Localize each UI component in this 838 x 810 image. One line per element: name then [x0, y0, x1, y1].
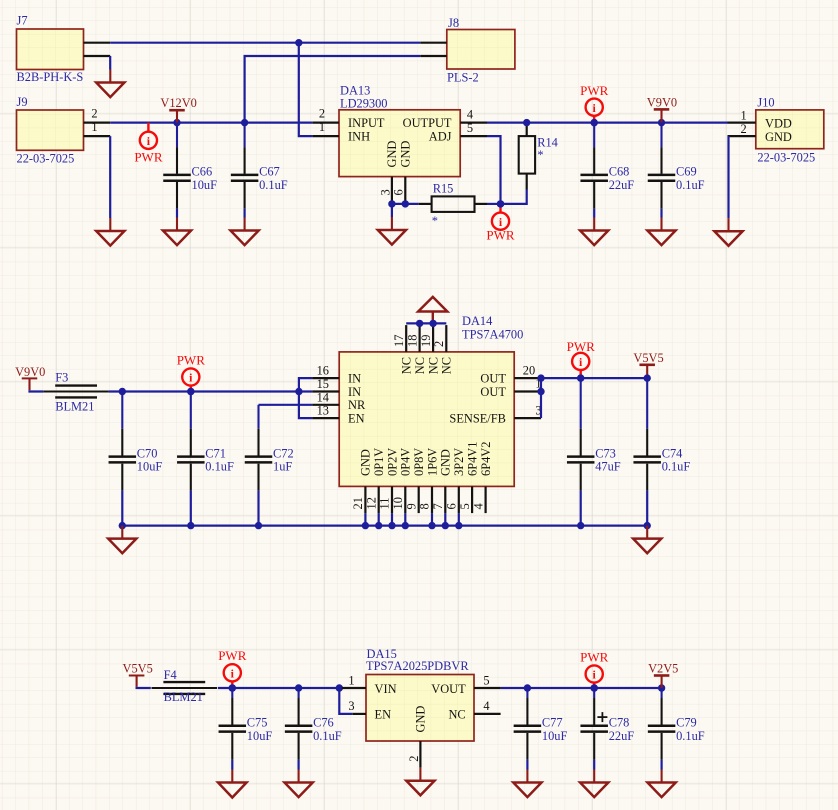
power spec PWR 3	[593, 116, 595, 123]
capacitor C72 1uF	[257, 405, 259, 429]
svg-text:3: 3	[348, 699, 354, 713]
svg-text:GND: GND	[439, 449, 453, 476]
junction PWR C75	[229, 684, 236, 691]
wire R15 to node	[487, 203, 501, 205]
svg-text:1: 1	[740, 108, 746, 122]
wire R14 bottom	[526, 174, 528, 190]
junction C68	[591, 119, 598, 126]
svg-text:5: 5	[483, 673, 489, 687]
junction C77	[524, 684, 531, 691]
power spec PWR 1	[147, 123, 149, 132]
svg-text:10uF: 10uF	[542, 729, 568, 743]
power port V9V0 top	[660, 109, 662, 122]
svg-text:0P2V: 0P2V	[385, 448, 399, 476]
svg-text:0.1uF: 0.1uF	[676, 178, 705, 192]
svg-text:*: *	[537, 148, 543, 162]
svg-text:0P1V: 0P1V	[372, 448, 386, 476]
svg-text:VIN: VIN	[375, 682, 397, 696]
pin 1 stub OUT	[514, 390, 541, 392]
wire pin 6 to rail	[458, 513, 460, 526]
ground for C75	[231, 770, 233, 783]
capacitor C69 0.1uF	[660, 123, 662, 148]
svg-text:V5V5: V5V5	[633, 351, 663, 365]
svg-text:PWR: PWR	[486, 228, 515, 243]
wire J8.2 down to rail	[245, 56, 421, 123]
ferrite bead F4 BLM21	[152, 687, 218, 689]
svg-text:C75: C75	[247, 716, 268, 730]
svg-text:C69: C69	[676, 165, 697, 179]
wire to DA13 INH	[299, 43, 313, 136]
svg-text:0.1uF: 0.1uF	[259, 178, 288, 192]
junction node top	[295, 39, 302, 46]
capacitor C77 10uF	[526, 688, 528, 698]
regulator DA13 LD29300	[339, 110, 460, 177]
capacitor C67 0.1uF	[244, 123, 246, 148]
svg-text:0.1uF: 0.1uF	[313, 729, 342, 743]
power port V5V5 middle	[646, 365, 648, 378]
svg-text:47uF: 47uF	[595, 460, 621, 474]
svg-text:NC: NC	[440, 357, 454, 374]
svg-text:V5V5: V5V5	[123, 662, 153, 676]
svg-text:0.1uF: 0.1uF	[676, 729, 705, 743]
svg-text:BLM21: BLM21	[55, 400, 94, 414]
svg-text:GND: GND	[765, 130, 792, 144]
svg-text:C70: C70	[137, 446, 158, 460]
svg-text:1: 1	[319, 120, 325, 134]
power spec PWR 6	[231, 681, 233, 688]
junction DA14 in node	[295, 388, 302, 395]
pin 2 stub GND	[419, 741, 421, 768]
pin 12 stub bottom 0P1V	[378, 486, 380, 513]
svg-text:DA13: DA13	[340, 83, 370, 97]
capacitor C70 10uF	[121, 392, 123, 429]
svg-text:BLM21: BLM21	[164, 690, 203, 704]
junction C69	[658, 119, 665, 126]
svg-text:20: 20	[523, 363, 535, 377]
svg-text:22-03-7025: 22-03-7025	[757, 150, 815, 164]
regulator DA14 TPS7A4700	[339, 352, 514, 487]
svg-text:6P4V1: 6P4V1	[465, 442, 479, 476]
svg-text:2: 2	[740, 122, 746, 136]
svg-text:5: 5	[467, 121, 473, 135]
wire ground rail middle	[122, 524, 647, 526]
ground for DA13	[391, 217, 393, 230]
pin 9 stub bottom 0P8V	[418, 486, 420, 513]
wire DA13 gnd down	[391, 204, 393, 217]
svg-text:VOUT: VOUT	[431, 682, 466, 696]
svg-text:12: 12	[364, 497, 378, 509]
pin 8 stub bottom 1P6V	[431, 486, 433, 513]
connector J7	[17, 29, 84, 70]
capacitor C79 0.1uF	[661, 688, 663, 698]
wire V9 rail	[487, 121, 728, 123]
svg-text:15: 15	[317, 377, 329, 391]
svg-text:PWR: PWR	[580, 650, 609, 665]
svg-text:EN: EN	[348, 411, 365, 425]
svg-text:9: 9	[404, 503, 418, 509]
svg-text:10uF: 10uF	[247, 729, 273, 743]
svg-text:C68: C68	[609, 165, 630, 179]
junction C67	[241, 119, 248, 126]
svg-text:11: 11	[378, 498, 392, 510]
wire NR to C72	[259, 404, 313, 406]
svg-text:GND: GND	[359, 449, 373, 476]
power port V12V0	[176, 110, 178, 122]
pin 4 stub OUTPUT	[460, 121, 487, 123]
wire out tie	[540, 378, 542, 418]
svg-text:1: 1	[348, 673, 354, 687]
pin 3 stub SENSE/FB	[514, 417, 541, 419]
ground for C68	[593, 218, 595, 231]
junction C70	[119, 388, 126, 395]
junction ADJ node	[497, 200, 504, 207]
svg-text:17: 17	[392, 335, 406, 347]
svg-text:C78: C78	[609, 716, 630, 730]
svg-text:ADJ: ADJ	[429, 129, 452, 143]
svg-text:J9: J9	[17, 95, 28, 109]
svg-text:F4: F4	[164, 668, 177, 682]
pin 20 stub OUT	[514, 377, 541, 379]
junction R14	[523, 119, 530, 126]
ground for middle rail left	[121, 526, 123, 539]
wire pin 7 to rail	[444, 513, 446, 526]
pin 2 stub top	[445, 325, 447, 352]
ground for C67	[244, 218, 246, 231]
capacitor C76 0.1uF	[298, 688, 300, 698]
svg-text:4: 4	[471, 503, 485, 509]
svg-text:22uF: 22uF	[609, 729, 635, 743]
pin 1 stub VIN	[342, 687, 366, 689]
svg-text:PLS-2: PLS-2	[447, 71, 479, 85]
svg-text:OUT: OUT	[480, 371, 506, 385]
pin 15 stub IN	[312, 390, 339, 392]
connector J10	[756, 110, 824, 149]
pin 4 stub bottom 6P4V2	[485, 486, 487, 513]
wire pin 12 to rail	[378, 513, 380, 526]
regulator DA15 TPS7A2025PDBVR	[366, 675, 474, 742]
svg-text:C72: C72	[273, 446, 294, 460]
svg-text:10uF: 10uF	[137, 460, 163, 474]
svg-text:NC: NC	[426, 357, 440, 374]
svg-text:TPS7A4700: TPS7A4700	[462, 327, 523, 341]
svg-text:EN: EN	[375, 708, 392, 722]
svg-text:J7: J7	[17, 14, 28, 28]
wire VIN to EN	[339, 688, 352, 714]
resistor R14	[526, 123, 528, 137]
ground for C66	[176, 218, 178, 231]
svg-text:GND: GND	[399, 141, 413, 168]
svg-text:18: 18	[405, 335, 419, 347]
svg-text:1P6V: 1P6V	[425, 448, 439, 476]
junction pin 19	[429, 320, 436, 327]
wire IN EN tie	[299, 378, 313, 418]
power spec PWR 5	[580, 370, 582, 378]
connector J8	[447, 30, 515, 70]
svg-text:0P8V: 0P8V	[412, 448, 426, 476]
pin 5 stub bottom 6P4V1	[471, 486, 473, 513]
svg-text:6P4V2: 6P4V2	[479, 442, 493, 476]
junction C76	[295, 684, 302, 691]
svg-text:R15: R15	[433, 182, 454, 196]
svg-text:5: 5	[458, 503, 472, 509]
svg-text:21: 21	[351, 497, 365, 509]
ground for C69	[660, 218, 662, 231]
svg-text:10: 10	[391, 497, 405, 509]
svg-text:C76: C76	[313, 716, 334, 730]
ground for C76	[298, 770, 300, 783]
wire J9.1 to ground	[109, 136, 111, 218]
svg-text:GND: GND	[385, 141, 399, 168]
wire 5V5 feed	[218, 687, 342, 689]
svg-text:C73: C73	[595, 446, 616, 460]
svg-text:DA14: DA14	[462, 314, 492, 328]
capacitor C73 47uF	[580, 378, 582, 429]
pin 13 stub EN	[312, 417, 339, 419]
svg-text:NC: NC	[448, 708, 465, 722]
pin 6 stub bottom 3P2V	[458, 486, 460, 513]
wire NC tie top	[406, 322, 446, 324]
svg-text:C79: C79	[676, 716, 697, 730]
svg-text:SENSE/FB: SENSE/FB	[449, 411, 505, 425]
wire 9V rail middle	[109, 390, 313, 392]
svg-text:V2V5: V2V5	[648, 662, 678, 676]
svg-text:C71: C71	[205, 446, 226, 460]
svg-text:1: 1	[91, 120, 97, 134]
power spec PWR 4	[190, 386, 192, 392]
svg-text:2: 2	[407, 755, 421, 761]
ground for J10	[727, 218, 729, 231]
svg-text:B2B-PH-K-S: B2B-PH-K-S	[17, 70, 84, 84]
svg-text:0.1uF: 0.1uF	[205, 460, 234, 474]
svg-text:13: 13	[317, 404, 329, 418]
capacitor C68 22uF	[593, 123, 595, 148]
junction C66	[173, 119, 180, 126]
svg-text:2: 2	[432, 341, 446, 347]
svg-text:8: 8	[418, 503, 432, 509]
svg-text:C74: C74	[662, 446, 683, 460]
svg-text:2: 2	[91, 107, 97, 121]
wire J10.2 to ground	[727, 136, 729, 218]
svg-text:19: 19	[419, 335, 433, 347]
svg-text:1uF: 1uF	[273, 460, 292, 474]
svg-text:TPS7A2025PDBVR: TPS7A2025PDBVR	[366, 659, 469, 673]
junction C78	[591, 684, 598, 691]
junction C79	[658, 684, 665, 691]
svg-text:*: *	[432, 214, 438, 228]
svg-text:0.1uF: 0.1uF	[662, 460, 691, 474]
svg-text:J8: J8	[448, 16, 459, 30]
svg-text:OUTPUT: OUTPUT	[403, 116, 452, 130]
pin 18 stub top	[419, 325, 421, 352]
power spec PWR 2	[499, 204, 501, 213]
svg-text:PWR: PWR	[177, 353, 206, 368]
svg-text:NR: NR	[348, 398, 366, 412]
pin 19 stub top	[432, 325, 434, 352]
svg-text:4: 4	[483, 699, 489, 713]
svg-text:NC: NC	[413, 357, 427, 374]
wire 5V5 rail	[541, 377, 647, 379]
ferrite bead F3 BLM21	[43, 390, 109, 392]
svg-text:LD29300: LD29300	[340, 96, 388, 110]
pin 1 stub	[313, 135, 339, 137]
svg-text:22-03-7025: 22-03-7025	[17, 152, 75, 166]
svg-text:V9V0: V9V0	[15, 365, 45, 379]
wire J7.1 to ground	[109, 56, 111, 70]
capacitor C78 22uF polarized	[593, 688, 595, 698]
pin 3 stub GND	[391, 177, 393, 204]
svg-text:3: 3	[378, 189, 392, 195]
svg-text:PWR: PWR	[218, 648, 247, 663]
wire ADJ to node	[487, 136, 501, 204]
connector J9	[17, 110, 84, 150]
pin 5 stub VOUT	[474, 687, 501, 689]
svg-text:C66: C66	[192, 165, 213, 179]
svg-text:0P4V: 0P4V	[399, 448, 413, 476]
pin 14 stub NR	[312, 404, 339, 406]
ground for C79	[661, 770, 663, 783]
svg-text:C67: C67	[259, 165, 280, 179]
junction C71	[187, 388, 194, 395]
pin 10 stub bottom 0P4V	[404, 486, 406, 513]
pin 7 stub bottom GND	[444, 486, 446, 513]
pin 21 stub bottom GND	[364, 486, 366, 513]
svg-text:2: 2	[319, 106, 325, 120]
capacitor C66 10uF	[176, 123, 178, 148]
svg-text:6: 6	[445, 503, 459, 509]
ground for DA15	[419, 768, 421, 781]
svg-text:PWR: PWR	[134, 150, 163, 165]
ground for J9	[109, 218, 111, 231]
junction VIN node	[336, 684, 343, 691]
svg-text:J10: J10	[757, 96, 774, 110]
svg-text:IN: IN	[348, 385, 361, 399]
wire V12 rail	[110, 121, 312, 123]
wire pin 10 to rail	[404, 513, 406, 526]
svg-text:OUT: OUT	[480, 385, 506, 399]
capacitor C71 0.1uF	[190, 392, 192, 429]
svg-text:INH: INH	[348, 129, 370, 143]
ground for C78	[593, 770, 595, 783]
svg-text:PWR: PWR	[567, 339, 596, 354]
svg-text:6: 6	[392, 189, 406, 195]
svg-text:3P2V: 3P2V	[452, 448, 466, 476]
junction C74	[644, 374, 651, 381]
power spec PWR 7	[593, 683, 595, 688]
svg-text:16: 16	[317, 364, 329, 378]
svg-text:V12V0: V12V0	[160, 96, 196, 110]
svg-text:22uF: 22uF	[609, 178, 635, 192]
svg-text:4: 4	[467, 108, 473, 122]
junction pin 18	[416, 320, 423, 327]
svg-text:F3: F3	[55, 371, 68, 385]
svg-text:7: 7	[431, 503, 445, 509]
svg-text:VDD: VDD	[765, 116, 792, 130]
svg-text:GND: GND	[414, 706, 428, 733]
ground for C77	[526, 770, 528, 783]
svg-text:PWR: PWR	[580, 83, 609, 98]
svg-text:C77: C77	[542, 716, 563, 730]
wire DA13 gnd pins	[392, 203, 419, 205]
capacitor C74 0.1uF	[646, 378, 648, 429]
resistor R15	[432, 196, 475, 212]
pin 6 stub GND	[404, 177, 406, 204]
wire pin 21 to rail	[364, 513, 366, 526]
svg-text:V9V0: V9V0	[647, 96, 677, 110]
ground for J7	[109, 70, 111, 83]
pin 3 stub EN	[353, 713, 366, 715]
pin 16 stub IN	[312, 377, 339, 379]
power arrow top	[432, 312, 434, 324]
wire 2V5 rail	[501, 687, 662, 689]
pin 4 stub NC	[474, 713, 501, 715]
pin 17 stub top	[405, 325, 407, 352]
junction C73	[577, 374, 584, 381]
svg-text:IN: IN	[348, 371, 361, 385]
pin 11 stub bottom 0P2V	[391, 486, 393, 513]
ground for middle rail right	[646, 526, 648, 539]
power port V2V5	[661, 676, 663, 689]
svg-text:14: 14	[317, 390, 329, 404]
capacitor C75 10uF	[231, 688, 233, 698]
svg-text:NC: NC	[400, 357, 414, 374]
wire pin 11 to rail	[391, 513, 393, 526]
svg-text:INPUT: INPUT	[348, 116, 385, 130]
wire J7.2 to J8.1	[110, 42, 420, 44]
wire pin 8 to rail	[431, 513, 433, 526]
svg-text:10uF: 10uF	[192, 178, 218, 192]
pin 5 stub ADJ	[460, 135, 487, 137]
